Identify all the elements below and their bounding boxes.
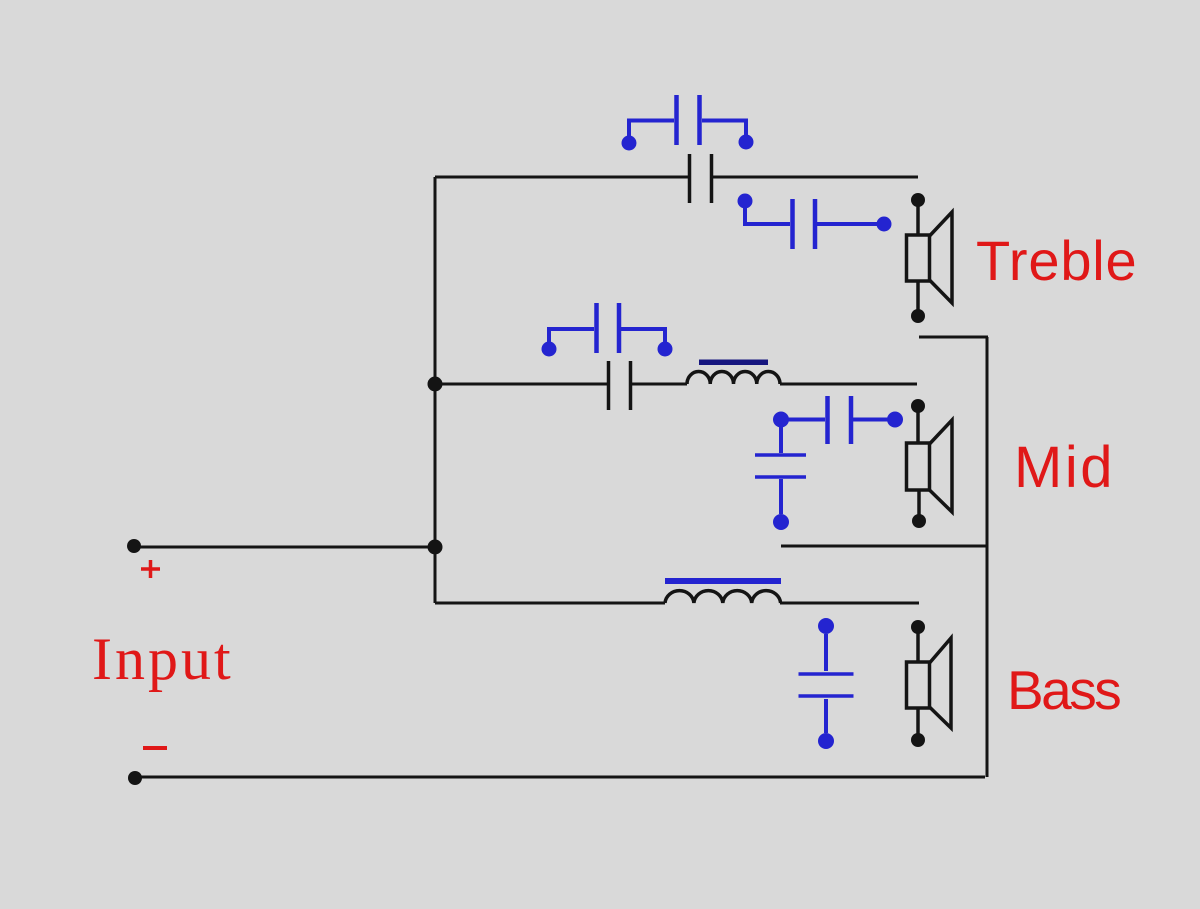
wire: treble branch right xyxy=(713,176,918,179)
wire: left bus vertical xyxy=(434,177,437,603)
node: junction mid branch xyxy=(428,377,443,392)
capacitor C6 blue mid horizontal xyxy=(773,396,903,444)
svg-text:Bass: Bass xyxy=(1007,659,1120,721)
node: input + terminal xyxy=(127,539,141,553)
speaker SP1 treble xyxy=(907,193,953,323)
capacitor C3 blue annotation above treble cap xyxy=(622,95,754,151)
wire: mid branch left xyxy=(435,383,607,386)
wire: mid branch right xyxy=(780,383,917,386)
capacitor C1 treble series (black) xyxy=(690,154,712,203)
capacitor C8 blue bass shunt xyxy=(799,618,854,749)
svg-text:Treble: Treble xyxy=(976,229,1137,292)
node: input - terminal xyxy=(128,771,142,785)
wire: mid return xyxy=(781,545,988,548)
wire: input + to left bus junction xyxy=(134,546,435,549)
inductor bar navy over L1 xyxy=(699,360,768,366)
wire: treble return xyxy=(919,336,988,339)
capacitor C4 blue treble second xyxy=(738,194,892,250)
node: junction input xyxy=(428,540,443,555)
capacitor C7 blue mid shunt vertical xyxy=(755,427,806,530)
inductor L1 mid (black) xyxy=(687,371,780,384)
wire: bass branch left xyxy=(435,602,665,605)
svg-text:Input: Input xyxy=(92,626,234,692)
wire: mid branch middle xyxy=(632,383,687,386)
wire: treble branch left xyxy=(435,176,688,179)
speaker SP3 bass xyxy=(907,620,952,747)
wire: bottom return xyxy=(135,776,985,779)
wire: right return bus xyxy=(986,337,989,777)
svg-text:Mid: Mid xyxy=(1014,435,1115,500)
capacitor C2 mid series (black) xyxy=(609,361,631,410)
label: minus sign xyxy=(143,746,167,750)
speaker SP2 mid xyxy=(907,399,953,528)
inductor bar blue over L2 xyxy=(665,578,781,584)
wire: bass branch right xyxy=(780,602,919,605)
label: plus sign xyxy=(141,560,160,578)
inductor L2 bass (black) xyxy=(665,591,781,603)
capacitor C5 blue annotation above mid cap xyxy=(542,303,673,357)
